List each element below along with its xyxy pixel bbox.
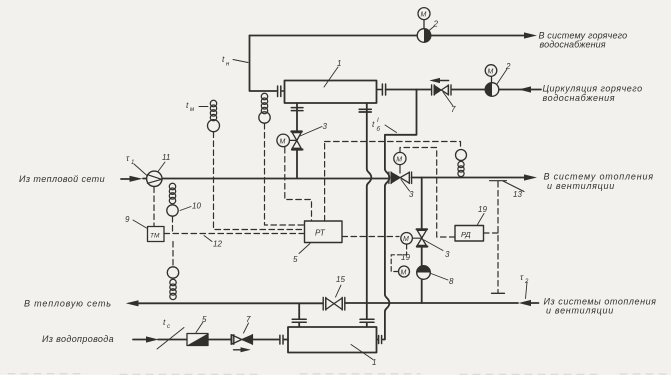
svg-text:5: 5 (202, 315, 207, 324)
motor M of supply valve 3 (394, 152, 406, 164)
label 3 (supply valve) (401, 180, 414, 200)
flange left port of heater 1 (278, 86, 285, 97)
wire jumper pipe supply-to-return (421, 178, 423, 304)
motor M of jumper valve 3 (401, 233, 413, 245)
dashed signal elevator to TM (153, 187, 155, 226)
svg-text:10: 10 (192, 202, 201, 211)
label 7 (check valve) (244, 315, 252, 333)
svg-text:t: t (222, 54, 225, 64)
heat exchanger 1 (lower stage) (288, 327, 377, 353)
svg-text:и вентиляции: и вентиляции (546, 306, 614, 316)
PT regulator box (305, 221, 343, 243)
svg-text:1: 1 (337, 59, 341, 68)
wire GVS supply arrowhead (524, 32, 537, 38)
label 5 (PT) (293, 244, 310, 265)
svg-text:t: t (163, 317, 166, 327)
flange lower heater left-end port (280, 335, 283, 344)
return line left arrowhead (to network) (126, 300, 139, 306)
svg-text:РД: РД (461, 230, 471, 239)
svg-text:РТ: РТ (315, 229, 326, 238)
dashed signal from t_m down to regulator bus (214, 132, 305, 230)
label 8 (431, 274, 454, 287)
dashed signal valve3top M to PT (285, 148, 312, 222)
label 1 (upper heater) (324, 59, 341, 87)
pump 2 on GVS supply (417, 29, 431, 43)
flange lower heater top-left port (292, 319, 306, 322)
svg-text:б: б (377, 127, 381, 133)
svg-text:ТМ: ТМ (150, 233, 160, 240)
motor M of circulation pump 2 (485, 65, 497, 83)
svg-text:водоснабжения: водоснабжения (540, 40, 606, 50)
label 9 (125, 215, 147, 228)
svg-text:13: 13 (513, 190, 522, 199)
svg-text:5: 5 (293, 255, 298, 264)
label 1 (lower heater) (351, 345, 376, 368)
svg-text:M: M (488, 68, 494, 75)
label 5 (filter) (196, 315, 207, 333)
flow arrow above valve 7 (429, 78, 448, 83)
dashed PT to jumper valve M (342, 236, 399, 238)
svg-text:t: t (372, 119, 375, 129)
dashed loop valve3h M to RD (400, 148, 455, 238)
pump 2 on circulation line (485, 83, 499, 97)
svg-text:н: н (226, 62, 230, 68)
svg-text:Из тепловой сети: Из тепловой сети (19, 174, 105, 184)
thermometer t_m (208, 100, 220, 131)
label 2 (top pump) (429, 20, 439, 32)
svg-text:M: M (403, 236, 409, 243)
flange heater 1 bottom-right port (359, 109, 371, 112)
svg-text:Циркуляция горячего: Циркуляция горячего (543, 84, 643, 94)
dashed signal from second thermometer to PT (265, 124, 305, 226)
motor M of pump 2 (top) (418, 8, 430, 29)
wire heating supply line (from network) (121, 178, 525, 180)
dashed riser PT to upper bus (324, 142, 326, 222)
valve 7 on circulation line (check valve) (432, 85, 451, 95)
svg-text:τ: τ (126, 153, 130, 163)
svg-text:7: 7 (246, 315, 251, 324)
return line right arrowhead (from heating system) (519, 300, 531, 306)
dashed upper bus to t_b thermometer (325, 142, 461, 150)
wire long drop pipe from heater bottom-right port (367, 103, 372, 327)
heating supply right arrowhead (524, 174, 537, 180)
TM device (heat meter) (148, 227, 165, 242)
flange right port of heater 1 (377, 84, 386, 95)
heat exchanger 1 (upper stage) (285, 81, 377, 104)
svg-text:2: 2 (524, 279, 529, 285)
label 15 (336, 275, 346, 297)
valve 15 on return line (323, 298, 345, 311)
svg-text:м: м (190, 107, 194, 113)
thermometer 10 (167, 183, 178, 216)
thermometer on return line (167, 267, 178, 300)
pressure tap bars (492, 292, 505, 294)
label t_b with leader (372, 118, 397, 133)
valve 3 on jumper (motorized) (412, 229, 427, 246)
svg-text:19: 19 (401, 253, 410, 262)
label tau1 (126, 153, 148, 176)
wire return-to-lower-heater left port pipe (298, 303, 300, 327)
svg-text:15: 15 (336, 275, 345, 284)
label 19 (RD) (478, 205, 488, 225)
elevator 11 (147, 171, 162, 186)
svg-text:водоснабжения: водоснабжения (543, 93, 616, 103)
label 7 (circulation valve) (443, 92, 456, 114)
svg-text:2: 2 (505, 62, 511, 71)
label 19 (group bracket) (391, 245, 410, 272)
svg-text:1: 1 (372, 358, 376, 367)
text: Iz sistemy otopleniya i ventilyacii (544, 297, 657, 316)
wire water supply line (133, 339, 288, 341)
label t_m with leader (186, 100, 208, 113)
label 2 (circulation pump) (497, 62, 511, 84)
text: V sistemu otopleniya i ventilyacii (544, 172, 654, 191)
svg-text:9: 9 (125, 215, 130, 224)
svg-text:11: 11 (162, 153, 170, 162)
svg-text:В тепловую сеть: В тепловую сеть (24, 299, 112, 309)
dashed RD to pressure taps (484, 182, 499, 293)
svg-text:с: с (167, 324, 170, 330)
pump 8 on jumper (417, 266, 431, 280)
wire GVS supply top line (250, 35, 526, 37)
svg-text:M: M (396, 156, 402, 163)
label 12 (204, 236, 222, 249)
valve 3 (on GVS heated drop, motorized) (290, 132, 303, 150)
label 13 with leader tick (490, 181, 525, 199)
label 3 (jumper valve) (424, 240, 450, 259)
flange heater 1 bottom-left port (291, 108, 303, 111)
svg-text:I: I (377, 118, 379, 124)
water supply arrowhead (146, 336, 159, 342)
label t_n with leader (222, 54, 248, 68)
scan edge artifact (8, 373, 666, 375)
label 3 (top valve) (300, 122, 328, 136)
motor M of valve 3 (top) (277, 134, 290, 147)
label tau2 (520, 272, 529, 299)
wire GVS circulation line (386, 89, 541, 91)
svg-text:3: 3 (445, 250, 450, 259)
flange lower heater top-right port (360, 319, 374, 322)
thermometer (second, on heated water) (259, 93, 270, 123)
svg-text:M: M (421, 12, 427, 19)
wire drop pipe from heater bottom-left port (296, 103, 298, 178)
text: Cirkulyaciya goryachego vodosnabzheniya (543, 84, 643, 104)
svg-text:3: 3 (409, 190, 414, 199)
svg-text:7: 7 (451, 105, 456, 114)
svg-text:M: M (280, 138, 286, 145)
flow arrow below check valve (234, 347, 251, 352)
wire branch from circulation down and left (t-b pipe) (383, 90, 417, 340)
wire return line (138, 302, 539, 304)
filter 5 on water line (187, 334, 208, 346)
svg-text:t: t (186, 100, 189, 110)
valve 3 on heating supply line (motorized) (389, 165, 412, 184)
svg-text:Из водопровода: Из водопровода (42, 334, 114, 344)
svg-text:τ: τ (520, 272, 524, 282)
dashed signal thermometer 10 to bus (172, 217, 174, 234)
wire riser from GVS line down to heater 1 left port (250, 36, 277, 92)
svg-text:19: 19 (478, 205, 487, 214)
svg-text:и вентиляции: и вентиляции (547, 181, 615, 191)
svg-text:1: 1 (131, 160, 134, 166)
RD regulator box (455, 226, 484, 242)
svg-text:8: 8 (449, 277, 454, 286)
text: V sistemu goryachego vodosnabzheniya (539, 31, 628, 50)
dashed signal TM down to return thermometer (172, 242, 174, 267)
svg-text:M: M (401, 269, 407, 276)
wire GVS circulation inlet arrowhead (519, 86, 531, 92)
label 11 (158, 153, 170, 172)
svg-text:3: 3 (323, 122, 328, 131)
flange right-end port of heater 1a (lower stage) (377, 336, 382, 344)
label 10 (180, 202, 201, 211)
svg-text:12: 12 (213, 240, 222, 249)
motor M of pump 8 (399, 266, 410, 277)
dashed signal bus TM to PT (line 12) (164, 233, 305, 235)
heating supply left arrowhead (130, 176, 143, 182)
thermometer t_b (dashed stem) (456, 150, 467, 177)
svg-text:2: 2 (433, 20, 439, 29)
label t_c with tick (157, 317, 184, 349)
check valve 7 on water line (231, 335, 252, 345)
